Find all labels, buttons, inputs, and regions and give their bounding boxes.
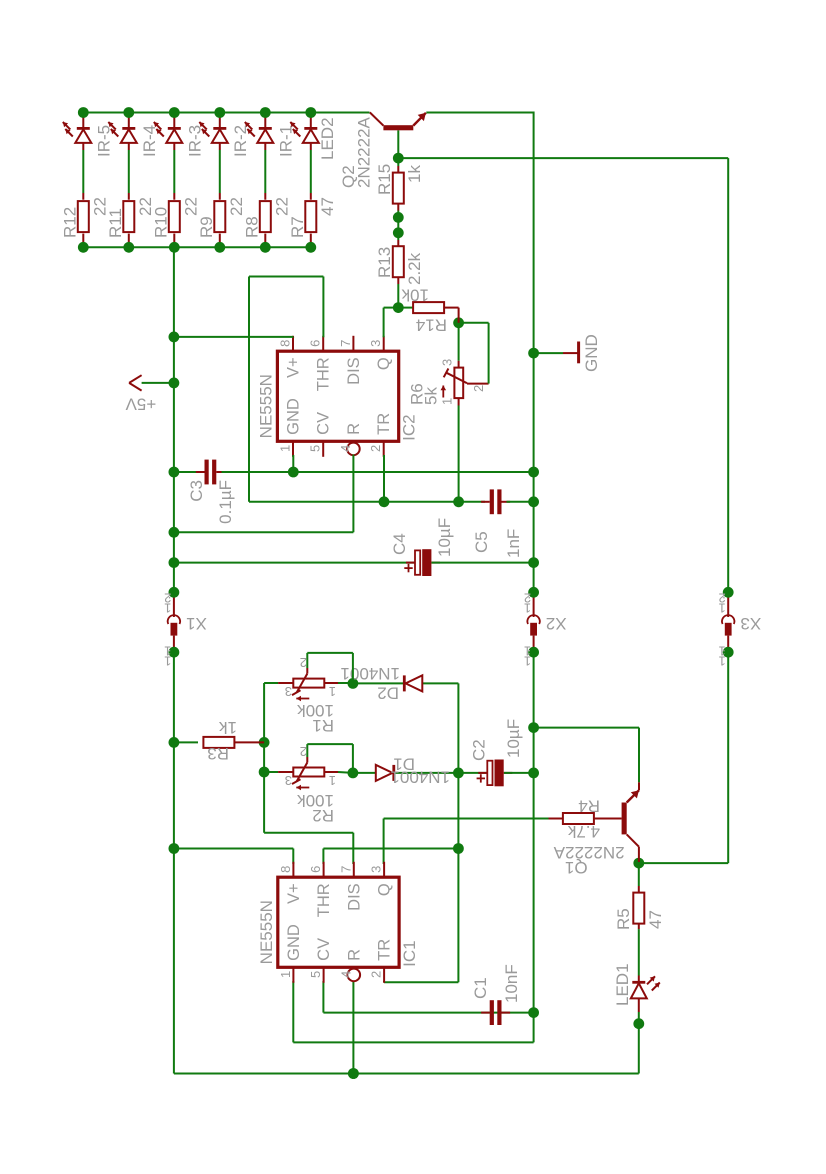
svg-text:47: 47 (318, 197, 337, 216)
svg-text:GND: GND (582, 334, 601, 372)
svg-text:4: 4 (338, 445, 353, 452)
svg-text:Q: Q (375, 357, 393, 370)
svg-text:1: 1 (329, 684, 336, 699)
svg-text:X1: X1 (186, 614, 207, 633)
svg-text:R12: R12 (60, 207, 79, 238)
svg-text:R10: R10 (151, 207, 170, 238)
svg-text:THR: THR (315, 357, 333, 391)
svg-text:LED2: LED2 (318, 117, 337, 160)
svg-text:1nF: 1nF (504, 529, 523, 558)
svg-text:10k: 10k (401, 286, 429, 305)
svg-text:3: 3 (285, 773, 292, 788)
svg-text:1k: 1k (405, 165, 424, 183)
svg-text:R: R (345, 949, 363, 961)
svg-text:1: 1 (278, 445, 293, 452)
svg-text:C5: C5 (472, 531, 491, 553)
svg-text:2: 2 (164, 591, 171, 606)
svg-text:1: 1 (718, 644, 725, 659)
svg-text:R5: R5 (614, 908, 633, 930)
svg-text:V+: V+ (285, 357, 303, 378)
svg-text:10µF: 10µF (435, 518, 454, 557)
svg-text:2: 2 (300, 744, 307, 759)
svg-text:DIS: DIS (345, 357, 363, 385)
svg-text:NE555N: NE555N (256, 374, 275, 438)
svg-text:0.1µF: 0.1µF (216, 480, 235, 524)
svg-text:V+: V+ (285, 883, 303, 904)
svg-text:8: 8 (278, 340, 293, 347)
svg-text:1N4001: 1N4001 (390, 768, 450, 787)
svg-text:7: 7 (338, 866, 353, 873)
svg-text:10µF: 10µF (504, 719, 523, 758)
svg-text:R11: R11 (106, 208, 125, 238)
svg-text:2: 2 (369, 971, 384, 978)
svg-text:2: 2 (718, 591, 725, 606)
svg-text:1: 1 (524, 644, 531, 659)
svg-text:1: 1 (164, 644, 171, 659)
svg-text:GND: GND (285, 398, 303, 435)
svg-text:5k: 5k (422, 387, 441, 405)
svg-text:5: 5 (308, 445, 323, 452)
svg-text:DIS: DIS (345, 883, 363, 911)
svg-text:Q: Q (376, 883, 394, 896)
svg-text:2: 2 (368, 445, 383, 452)
svg-text:4.7k: 4.7k (567, 822, 600, 841)
svg-text:47: 47 (646, 910, 665, 929)
svg-text:3: 3 (369, 866, 384, 873)
svg-text:C3: C3 (187, 480, 206, 502)
svg-text:10nF: 10nF (502, 964, 521, 1003)
svg-text:+5V: +5V (125, 395, 156, 414)
svg-text:22: 22 (181, 197, 200, 216)
svg-text:X2: X2 (546, 614, 567, 633)
svg-text:1: 1 (278, 971, 293, 978)
svg-text:6: 6 (308, 340, 323, 347)
svg-text:X3: X3 (740, 614, 761, 633)
svg-text:R13: R13 (375, 247, 394, 278)
svg-text:THR: THR (315, 883, 333, 917)
svg-text:2: 2 (471, 385, 486, 392)
svg-text:IC2: IC2 (400, 414, 419, 440)
svg-text:3: 3 (440, 359, 455, 366)
svg-text:TR: TR (375, 413, 393, 435)
svg-text:2: 2 (300, 655, 307, 670)
svg-text:1N4001: 1N4001 (340, 664, 400, 683)
svg-text:7: 7 (338, 340, 353, 347)
svg-text:3: 3 (368, 340, 383, 347)
svg-text:C2: C2 (470, 739, 489, 761)
svg-text:R7: R7 (288, 216, 307, 238)
svg-text:1k: 1k (219, 718, 237, 737)
svg-text:2.2k: 2.2k (405, 252, 424, 285)
svg-text:22: 22 (227, 197, 246, 216)
svg-text:CV: CV (315, 938, 333, 961)
svg-text:C4: C4 (390, 533, 409, 555)
svg-text:1: 1 (329, 773, 336, 788)
svg-text:R4: R4 (578, 797, 600, 816)
svg-text:6: 6 (308, 866, 323, 873)
svg-text:4: 4 (338, 971, 353, 978)
svg-text:R8: R8 (242, 216, 261, 238)
svg-text:22: 22 (272, 197, 291, 216)
svg-text:5: 5 (308, 971, 323, 978)
svg-text:1: 1 (440, 398, 455, 405)
svg-text:IC1: IC1 (400, 940, 419, 966)
svg-text:100k: 100k (297, 791, 334, 810)
svg-text:R9: R9 (197, 216, 216, 238)
svg-text:NE555N: NE555N (257, 900, 276, 964)
svg-text:2N2222A: 2N2222A (553, 843, 625, 862)
svg-text:D2: D2 (377, 684, 399, 703)
svg-text:R14: R14 (416, 316, 447, 335)
svg-text:2: 2 (524, 591, 531, 606)
svg-text:R15: R15 (375, 164, 394, 195)
svg-text:LED1: LED1 (613, 963, 632, 1006)
svg-text:R: R (345, 423, 363, 435)
svg-text:CV: CV (315, 412, 333, 435)
svg-text:TR: TR (376, 939, 394, 961)
svg-text:2N2222A: 2N2222A (354, 116, 373, 188)
svg-text:8: 8 (278, 866, 293, 873)
svg-text:3: 3 (285, 684, 292, 699)
svg-text:100k: 100k (297, 701, 334, 720)
svg-text:R3: R3 (207, 744, 229, 763)
svg-text:C1: C1 (471, 977, 490, 999)
svg-text:GND: GND (285, 924, 303, 961)
